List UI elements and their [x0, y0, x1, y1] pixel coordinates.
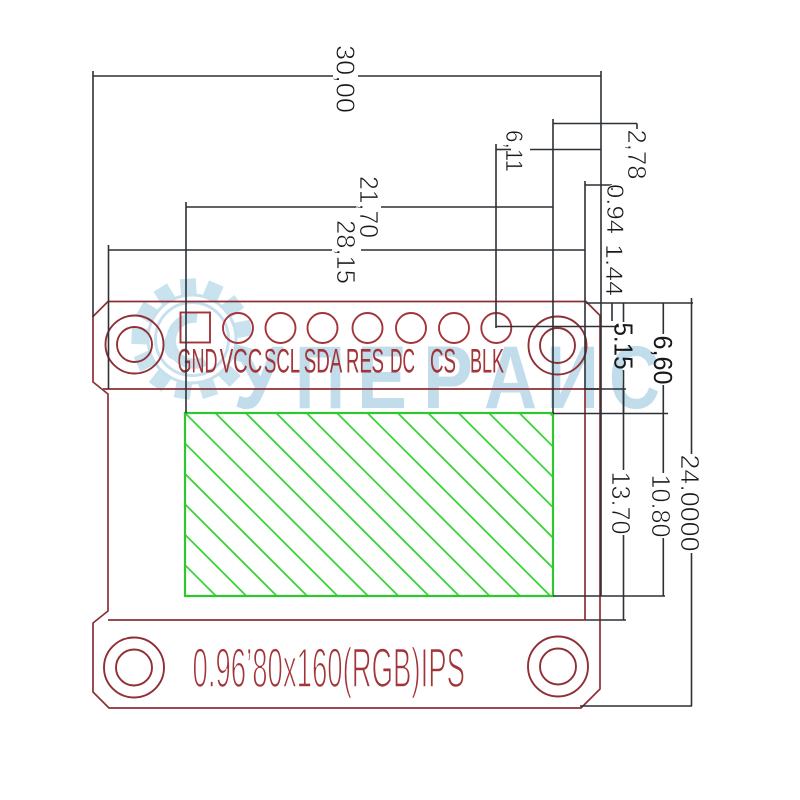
- dimension label 2.78: [622, 130, 652, 180]
- ext line green left x=186: [185, 202, 187, 413]
- pin pad SCL: [266, 313, 296, 343]
- svg-text:6,60: 6,60: [648, 336, 678, 385]
- pin pad BLK: [481, 313, 511, 343]
- dimension label 1.44: [600, 244, 627, 296]
- ext line BLK pin x=496: [495, 144, 497, 328]
- pin pad VCC: [223, 313, 253, 343]
- mounting hole bottom-right: [528, 637, 588, 697]
- svg-text:SCL: SCL: [264, 343, 300, 381]
- ext line left PCB edge x=93: [92, 71, 94, 317]
- dim line 13.70 x=623.5: [623, 390, 625, 471]
- display active area border: [185, 413, 553, 596]
- svg-text:0.94: 0.94: [601, 184, 628, 234]
- svg-text:5.15: 5.15: [609, 323, 639, 370]
- svg-text:30,00: 30,00: [331, 45, 361, 113]
- dimension label 10.80: [646, 475, 676, 538]
- pin pad SDA: [308, 313, 338, 343]
- dim line 30.00 y=76: [93, 75, 333, 77]
- svg-text:BLK: BLK: [470, 343, 504, 381]
- mounting hole top-left: [106, 316, 164, 374]
- dimension lines (black): [93, 71, 693, 706]
- dimension label 6.11: [500, 130, 527, 172]
- dim line 2.78 y=123.5 with tail: [553, 123, 637, 125]
- ref line PCB bottom y=706: [580, 705, 692, 707]
- dimension label 21.70: [354, 176, 384, 238]
- svg-text:2,78: 2,78: [622, 130, 652, 180]
- ref line green top y=413.5: [553, 413, 668, 415]
- dim line 5.15 x=623.5: [623, 303, 625, 323]
- pin pad DC: [396, 313, 426, 343]
- dim line 24.0000 x=691.5: [691, 298, 693, 454]
- ext line glass left x=108.5: [108, 245, 110, 389]
- pin labels: [178, 343, 505, 381]
- glass right edge: [584, 389, 586, 620]
- svg-text:DC: DC: [390, 343, 415, 381]
- mounting hole top-right: [529, 317, 587, 375]
- watermark gear: [131, 278, 253, 400]
- svg-text:CS: CS: [430, 343, 456, 381]
- dim line 6.60 x=663.3: [662, 303, 664, 334]
- svg-text:VCC: VCC: [220, 343, 263, 381]
- ext line glass right x=585: [584, 181, 586, 389]
- svg-text:1.44: 1.44: [600, 244, 627, 296]
- ref line green bottom y=596: [553, 595, 665, 597]
- dimension label 30.00: [331, 45, 361, 113]
- pin pad RES: [353, 313, 383, 343]
- ref line pin row y=327.5: [496, 326, 619, 328]
- dimension label 28.15: [331, 220, 361, 284]
- ref line glass bottom y=620: [585, 619, 626, 621]
- dim line 6.11 y=149: [496, 149, 511, 151]
- PCB board outline: [93, 302, 600, 709]
- dim line 21.70 y=207: [186, 206, 357, 208]
- svg-text:13.70: 13.70: [606, 472, 636, 535]
- dimension label 5.15: [609, 323, 639, 370]
- ref line glass top right y=389.5: [584, 388, 626, 390]
- svg-text:28,15: 28,15: [331, 220, 361, 284]
- svg-text:24.0000: 24.0000: [675, 455, 705, 552]
- glass bottom edge / bottom strip top edge: [108, 619, 585, 621]
- ext line green right x=553: [552, 119, 554, 413]
- svg-text:RES: RES: [346, 343, 384, 381]
- svg-text:0.96’80x160(RGB)IPS: 0.96’80x160(RGB)IPS: [193, 636, 466, 699]
- svg-text:SDA: SDA: [304, 343, 343, 381]
- dimension label 6.60: [648, 336, 678, 385]
- mounting hole bottom-left: [104, 638, 164, 698]
- dim 1.44 stub x=612: [611, 303, 613, 322]
- header strip bottom edge / glass top edge: [103, 388, 599, 390]
- svg-text:6,11: 6,11: [500, 130, 527, 172]
- svg-text:GND: GND: [178, 343, 218, 381]
- dim line 0.94 y=185 with tail: [585, 184, 612, 186]
- ref line PCB top y=303: [586, 302, 693, 304]
- pin pad GND (square): [181, 313, 211, 343]
- ext line right PCB edge x=601: [600, 71, 602, 596]
- watermark letters: [233, 327, 660, 427]
- svg-text:10.80: 10.80: [646, 475, 676, 538]
- dimension label 24.0000: [675, 455, 705, 552]
- pin pad CS: [439, 313, 469, 343]
- dim line 28.15 y=250: [109, 249, 332, 251]
- dim line 10.80 x=663.3: [662, 414, 664, 474]
- dimension label 13.70: [606, 472, 636, 535]
- dimension label 0.94: [601, 184, 628, 234]
- display active area green hatch: [185, 413, 755, 800]
